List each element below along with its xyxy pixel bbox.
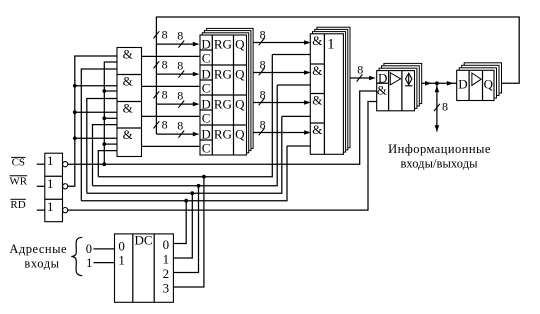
svg-text:0: 0 <box>163 237 170 252</box>
svg-text:8: 8 <box>357 62 363 76</box>
svg-text:C: C <box>202 51 211 66</box>
svg-text:Q: Q <box>484 77 494 92</box>
wire: WR write strobe from inverter to AND gates <box>68 56 117 186</box>
output buffer block 1 (D/& with 3-state outputs, stacked) <box>384 63 422 103</box>
wire: RD read strobe from inverter to output buffer enable <box>68 102 377 211</box>
wire: inverter input stubs <box>37 163 45 165</box>
svg-text:&: & <box>123 74 133 89</box>
svg-text:входы: входы <box>24 256 59 270</box>
svg-text:3: 3 <box>163 281 170 296</box>
svg-text:D: D <box>458 77 467 92</box>
svg-text:RG: RG <box>214 96 232 111</box>
wire: address input stubs <box>94 248 115 250</box>
wire: buffer output line with junction to bidirectional data port <box>422 82 457 84</box>
svg-text:8: 8 <box>442 100 448 114</box>
svg-text:0: 0 <box>118 238 125 253</box>
svg-text:8: 8 <box>177 119 183 133</box>
svg-text:Информационные: Информационные <box>388 142 491 156</box>
wire: select line 1 distribution to selector cell 3 <box>87 116 282 193</box>
AND-OR read selector block (4 AND + OR, stacked) <box>317 27 350 148</box>
svg-text:8: 8 <box>177 59 183 73</box>
svg-text:1: 1 <box>47 199 54 214</box>
svg-text:WR: WR <box>9 176 27 188</box>
svg-text:C: C <box>202 111 211 126</box>
svg-text:&: & <box>123 127 133 142</box>
svg-text:&: & <box>312 122 322 137</box>
output register block 2 (D/Q, stacked) <box>464 63 501 93</box>
svg-text:D: D <box>201 96 210 111</box>
svg-text:1: 1 <box>47 176 54 191</box>
wire: register Q3 output bus to selector, width label 8 <box>253 102 310 104</box>
svg-text:8: 8 <box>260 87 266 101</box>
svg-text:8: 8 <box>177 29 183 43</box>
wire: bidirectional data stub (8) with up/down arrows <box>436 83 438 131</box>
svg-text:RG: RG <box>214 36 232 51</box>
svg-text:D: D <box>201 66 210 81</box>
wire: D input bus branch, register row 4, with width label 8 <box>156 133 197 135</box>
wire: select stubs into AND-OR selector cells <box>272 54 310 56</box>
svg-text:&: & <box>312 63 322 78</box>
svg-text:&: & <box>312 33 322 48</box>
decoder DC for address inputs <box>115 234 174 302</box>
wire: CS riser feeding AND gate inputs <box>104 62 117 164</box>
svg-text:1: 1 <box>47 153 54 168</box>
3-state diamond symbol <box>408 73 410 86</box>
svg-text:C: C <box>202 141 211 156</box>
wire: decoder output 1 riser to select line 1 with junction <box>173 193 192 258</box>
inverter output bubbles <box>63 162 68 167</box>
svg-text:&: & <box>377 83 387 98</box>
svg-text:Q: Q <box>235 97 245 112</box>
wire: D input bus branch, register row 3, with width label 8 <box>156 103 197 105</box>
svg-text:C: C <box>202 81 211 96</box>
svg-text:входы/выходы: входы/выходы <box>400 156 478 170</box>
svg-text:&: & <box>123 101 133 116</box>
svg-text:RG: RG <box>214 126 232 141</box>
wire: select line 3 distribution to selector cell 1 <box>98 55 272 177</box>
wire: select line 2 distribution to selector cell 2 <box>93 85 278 186</box>
svg-text:DC: DC <box>134 232 152 247</box>
wire: D input bus branch, register row 2, with width label 8 <box>156 73 197 75</box>
svg-text:1: 1 <box>327 36 335 52</box>
svg-text:8: 8 <box>177 89 183 103</box>
svg-text:RD: RD <box>10 199 25 211</box>
svg-text:8: 8 <box>260 57 266 71</box>
svg-text:8: 8 <box>260 117 266 131</box>
svg-text:1: 1 <box>118 252 125 267</box>
wire: decoder output 0 riser to select line 0 with junction <box>173 201 186 244</box>
wire: decoder output 2 riser to select line 2 with junction <box>173 186 198 273</box>
svg-text:RG: RG <box>214 66 232 81</box>
buffer2 triangle symbol <box>472 73 481 85</box>
wire: register Q2 output bus to selector, width label 8 <box>253 72 310 74</box>
svg-text:8: 8 <box>260 27 266 41</box>
svg-text:Адресные: Адресные <box>9 242 67 256</box>
wire: AND-OR output bus to output buffer <box>349 77 375 79</box>
svg-text:D: D <box>201 36 210 51</box>
svg-text:8: 8 <box>162 118 168 132</box>
svg-text:8: 8 <box>162 28 168 42</box>
svg-text:1: 1 <box>163 252 170 267</box>
svg-text:8: 8 <box>162 58 168 72</box>
wire: clock line from AND gate 2 to register C2 <box>142 85 201 87</box>
svg-text:Q: Q <box>235 37 245 52</box>
buffer triangle symbol <box>390 73 400 85</box>
wire: decoder output 3 riser to select line 3 with junction <box>173 177 204 287</box>
wire: register Q1 output bus to selector, width label 8 <box>253 42 310 44</box>
svg-text:CS: CS <box>12 157 25 169</box>
svg-text:Q: Q <box>235 67 245 82</box>
wire: clock line from AND gate 3 to register C3 <box>142 115 201 117</box>
wire: register Q4 output bus to selector, width label 8 <box>253 132 310 134</box>
svg-text:2: 2 <box>163 266 170 281</box>
wire: CS enable line from inverter to gates and output buffer <box>68 91 377 164</box>
svg-text:8: 8 <box>162 88 168 102</box>
register file block RG (4 x 8-bit, stacked) <box>207 28 254 148</box>
svg-text:0: 0 <box>86 242 92 256</box>
wire: clock line from AND gate 1 to register C1 <box>142 55 201 57</box>
svg-text:Q: Q <box>235 127 245 142</box>
inverter column CS/WR/RD (1-blocks with bubbles) <box>45 153 63 222</box>
svg-text:D: D <box>201 126 210 141</box>
svg-text:&: & <box>123 47 133 62</box>
wire: clock line from AND gate 4 to register C4 <box>142 145 201 147</box>
AND gate column (write strobes) DD2 <box>117 48 142 157</box>
svg-text:1: 1 <box>86 256 92 270</box>
svg-text:&: & <box>312 93 322 108</box>
wire: select left risers into AND gate third inputs <box>81 69 117 201</box>
wire: feedback bus from output buffer to register D inputs (top) <box>156 17 519 134</box>
wire: select line 0 distribution to selector cell 4 <box>81 146 287 201</box>
wire: D input bus branch, register row 1, with width label 8 <box>156 43 197 45</box>
